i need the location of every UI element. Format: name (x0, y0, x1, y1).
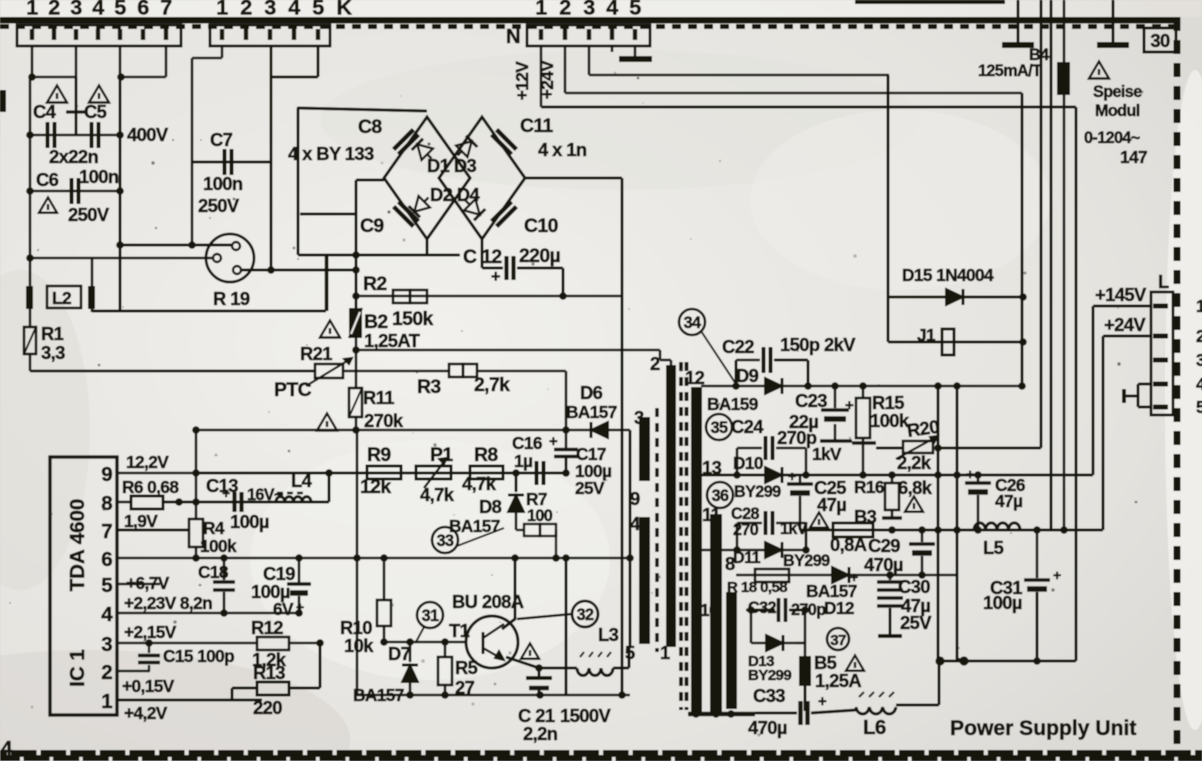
svg-text:TDA 4600: TDA 4600 (66, 499, 89, 592)
svg-text:150k: 150k (392, 308, 434, 330)
svg-text:BY299: BY299 (748, 667, 791, 684)
svg-text:D7: D7 (388, 643, 411, 664)
svg-text:+: + (549, 433, 558, 450)
svg-text:2x22n: 2x22n (49, 146, 99, 167)
svg-text:+: + (1053, 567, 1061, 583)
svg-text:BU 208A: BU 208A (452, 591, 524, 612)
svg-text:0,8A: 0,8A (830, 534, 867, 555)
svg-text:+: + (788, 468, 796, 484)
svg-text:+12V: +12V (512, 61, 532, 101)
svg-text:+4,2V: +4,2V (124, 703, 168, 723)
svg-text:47µ: 47µ (995, 491, 1022, 511)
svg-text:L4: L4 (291, 470, 313, 491)
svg-text:+2,23V 8,2n: +2,23V 8,2n (124, 593, 212, 613)
svg-text:C10: C10 (524, 215, 558, 237)
svg-text:+6,7V: +6,7V (126, 573, 170, 593)
svg-text:25V: 25V (575, 478, 605, 498)
svg-text:47µ: 47µ (817, 494, 846, 515)
svg-text:C4: C4 (33, 101, 57, 122)
svg-text:10k: 10k (344, 635, 374, 656)
svg-text:12k: 12k (360, 476, 391, 498)
svg-text:D8: D8 (479, 496, 502, 517)
svg-text:C22: C22 (722, 336, 754, 357)
svg-text:R11: R11 (363, 387, 394, 408)
svg-text:1: 1 (216, 0, 228, 20)
svg-text:4,7k: 4,7k (462, 473, 497, 494)
svg-text:34: 34 (684, 314, 701, 332)
svg-text:+: + (850, 569, 858, 585)
svg-text:C5: C5 (84, 101, 107, 122)
svg-text:8: 8 (101, 492, 112, 515)
svg-text:400V: 400V (127, 124, 169, 145)
svg-text:7: 7 (160, 0, 172, 20)
svg-text:1500V: 1500V (560, 705, 612, 726)
svg-text:2: 2 (240, 0, 252, 20)
svg-text:C8: C8 (358, 116, 382, 138)
svg-text:100µ: 100µ (983, 592, 1022, 613)
svg-text:+: + (845, 397, 854, 414)
svg-text:33: 33 (437, 532, 454, 550)
svg-text:1,25A: 1,25A (815, 670, 861, 691)
svg-text:100: 100 (527, 507, 553, 525)
svg-text:L3: L3 (598, 624, 619, 645)
svg-text:220µ: 220µ (519, 245, 560, 267)
svg-text:125mA/T: 125mA/T (978, 62, 1042, 80)
svg-text:R6 0,68: R6 0,68 (122, 477, 179, 497)
svg-text:R2: R2 (363, 273, 387, 295)
svg-text:D2 D4: D2 D4 (430, 184, 480, 205)
svg-text:L: L (1158, 271, 1169, 292)
svg-text:5: 5 (629, 0, 641, 20)
svg-text:4: 4 (1, 737, 13, 760)
svg-text:BA159: BA159 (707, 394, 758, 414)
svg-text:100n: 100n (203, 173, 243, 194)
svg-text:3: 3 (264, 0, 276, 20)
svg-text:6V: 6V (273, 599, 294, 619)
svg-text:6: 6 (137, 0, 149, 20)
svg-text:C9: C9 (360, 215, 384, 237)
svg-text:R12: R12 (251, 617, 283, 638)
svg-text:L2: L2 (52, 288, 71, 308)
svg-text:5: 5 (101, 574, 112, 597)
svg-text:R3: R3 (417, 376, 441, 398)
svg-text:1: 1 (26, 0, 38, 20)
svg-text:C23: C23 (795, 390, 827, 411)
svg-text:30: 30 (1150, 30, 1170, 51)
svg-text:4: 4 (92, 0, 104, 20)
svg-text:270k: 270k (364, 410, 404, 431)
svg-text:100n: 100n (79, 166, 119, 187)
svg-text:3: 3 (101, 633, 112, 656)
svg-text:C6: C6 (36, 169, 59, 190)
svg-text:R7: R7 (526, 489, 547, 509)
svg-text:3: 3 (583, 0, 595, 20)
svg-text:+: + (966, 466, 974, 482)
svg-text:R8: R8 (474, 444, 498, 466)
svg-text:C15 100p: C15 100p (163, 646, 234, 666)
svg-text:4 x BY 133: 4 x BY 133 (288, 143, 374, 164)
svg-text:C30: C30 (898, 576, 930, 597)
svg-text:2: 2 (101, 661, 112, 684)
svg-text:Power Supply Unit: Power Supply Unit (950, 717, 1136, 740)
svg-text:+145V: +145V (1095, 284, 1147, 305)
svg-text:IC 1: IC 1 (66, 649, 89, 687)
svg-text:5: 5 (312, 0, 324, 20)
svg-text:R16: R16 (854, 477, 884, 497)
svg-text:D6: D6 (580, 382, 603, 403)
svg-text:16V~: 16V~ (247, 486, 283, 504)
svg-text:100µ: 100µ (230, 511, 269, 532)
svg-text:31: 31 (422, 607, 439, 625)
svg-text:+: + (491, 268, 500, 286)
svg-text:+24V: +24V (537, 60, 557, 100)
svg-text:C33: C33 (753, 685, 785, 706)
svg-text:+0,15V: +0,15V (122, 676, 175, 696)
svg-text:2,2k: 2,2k (897, 452, 932, 473)
svg-text:D10: D10 (733, 453, 763, 473)
svg-text:100k: 100k (200, 536, 237, 556)
svg-text:J1: J1 (917, 325, 936, 345)
svg-text:10: 10 (700, 600, 718, 620)
svg-text:+2,15V: +2,15V (124, 622, 177, 642)
svg-text:R20: R20 (906, 416, 941, 441)
svg-text:9: 9 (101, 463, 112, 486)
svg-text:1: 1 (1196, 296, 1202, 316)
svg-text:+: + (222, 485, 230, 501)
svg-text:36: 36 (712, 487, 729, 505)
svg-text:270: 270 (733, 521, 759, 539)
svg-text:32: 32 (577, 606, 594, 624)
svg-text:PTC: PTC (274, 379, 312, 401)
svg-text:4 x 1n: 4 x 1n (538, 139, 587, 160)
svg-text:C 12: C 12 (463, 246, 502, 268)
svg-text:D1 D3: D1 D3 (427, 155, 476, 176)
svg-text:N: N (506, 25, 520, 48)
svg-text:37: 37 (830, 632, 846, 649)
svg-text:R4: R4 (203, 518, 225, 538)
svg-text:2: 2 (48, 0, 60, 20)
svg-text:+: + (818, 693, 827, 710)
svg-text:470µ: 470µ (748, 717, 787, 738)
svg-text:P1: P1 (430, 444, 453, 466)
svg-text:2: 2 (559, 0, 571, 20)
svg-text:R5: R5 (455, 657, 478, 678)
svg-text:3: 3 (70, 0, 82, 20)
svg-text:2,7k: 2,7k (474, 374, 510, 396)
svg-text:1µ: 1µ (514, 451, 532, 471)
svg-text:100k: 100k (870, 410, 910, 431)
svg-text:L6: L6 (863, 716, 886, 739)
svg-text:9: 9 (630, 488, 640, 509)
svg-text:+24V: +24V (1104, 314, 1146, 335)
svg-text:25V: 25V (900, 612, 932, 633)
svg-text:1: 1 (101, 690, 112, 713)
svg-text:C11: C11 (520, 115, 554, 137)
svg-text:B3: B3 (854, 506, 877, 527)
svg-text:R 19: R 19 (213, 288, 250, 309)
svg-text:1: 1 (535, 0, 547, 20)
svg-text:2,2n: 2,2n (523, 723, 558, 744)
svg-text:470µ: 470µ (864, 554, 903, 575)
svg-text:4: 4 (101, 603, 113, 626)
svg-text:Speise: Speise (1093, 83, 1142, 101)
svg-text:3: 3 (1196, 350, 1202, 370)
svg-text:270p: 270p (777, 427, 817, 448)
svg-text:C24: C24 (731, 416, 764, 437)
svg-text:R1: R1 (41, 323, 64, 344)
svg-text:D15 1N4004: D15 1N4004 (902, 265, 994, 285)
svg-text:D9: D9 (736, 365, 759, 386)
svg-text:+: + (296, 599, 304, 615)
svg-text:1,9V: 1,9V (124, 511, 158, 531)
svg-text:4: 4 (606, 0, 618, 20)
svg-text:D12: D12 (824, 598, 854, 618)
svg-text:6: 6 (101, 548, 112, 571)
svg-text:C7: C7 (210, 129, 233, 150)
svg-text:1,25AT: 1,25AT (364, 330, 421, 351)
svg-text:35: 35 (711, 419, 728, 437)
svg-text:BY299: BY299 (734, 483, 781, 501)
svg-text:150p 2kV: 150p 2kV (780, 334, 856, 355)
svg-text:R9: R9 (367, 444, 391, 466)
svg-text:R 18 0,58: R 18 0,58 (727, 579, 787, 596)
svg-text:250V: 250V (68, 204, 110, 225)
svg-text:147: 147 (1120, 147, 1147, 167)
svg-text:C29: C29 (868, 535, 900, 556)
svg-text:R13: R13 (253, 662, 285, 683)
svg-text:C16: C16 (512, 433, 542, 453)
svg-text:R21: R21 (300, 343, 332, 364)
svg-text:4,7k: 4,7k (420, 484, 455, 505)
svg-text:3,3: 3,3 (41, 342, 65, 363)
svg-text:BA157: BA157 (566, 402, 617, 422)
svg-text:C18: C18 (198, 562, 229, 582)
svg-text:0-1204~: 0-1204~ (1084, 129, 1140, 147)
svg-text:2: 2 (650, 353, 660, 374)
svg-text:2: 2 (1196, 326, 1202, 346)
svg-text:K: K (337, 0, 353, 20)
svg-text:BY299: BY299 (783, 552, 830, 570)
svg-text:220: 220 (253, 697, 282, 718)
svg-text:Modul: Modul (1095, 102, 1140, 120)
svg-text:12,2V: 12,2V (126, 452, 169, 472)
svg-text:1kV: 1kV (812, 444, 842, 464)
svg-text:5: 5 (114, 0, 126, 20)
svg-text:6,8k: 6,8k (898, 477, 933, 498)
svg-text:4: 4 (1196, 374, 1202, 394)
svg-text:L5: L5 (983, 537, 1004, 558)
svg-text:4: 4 (288, 0, 300, 20)
svg-text:5: 5 (1196, 397, 1202, 417)
svg-text:7: 7 (101, 520, 112, 543)
